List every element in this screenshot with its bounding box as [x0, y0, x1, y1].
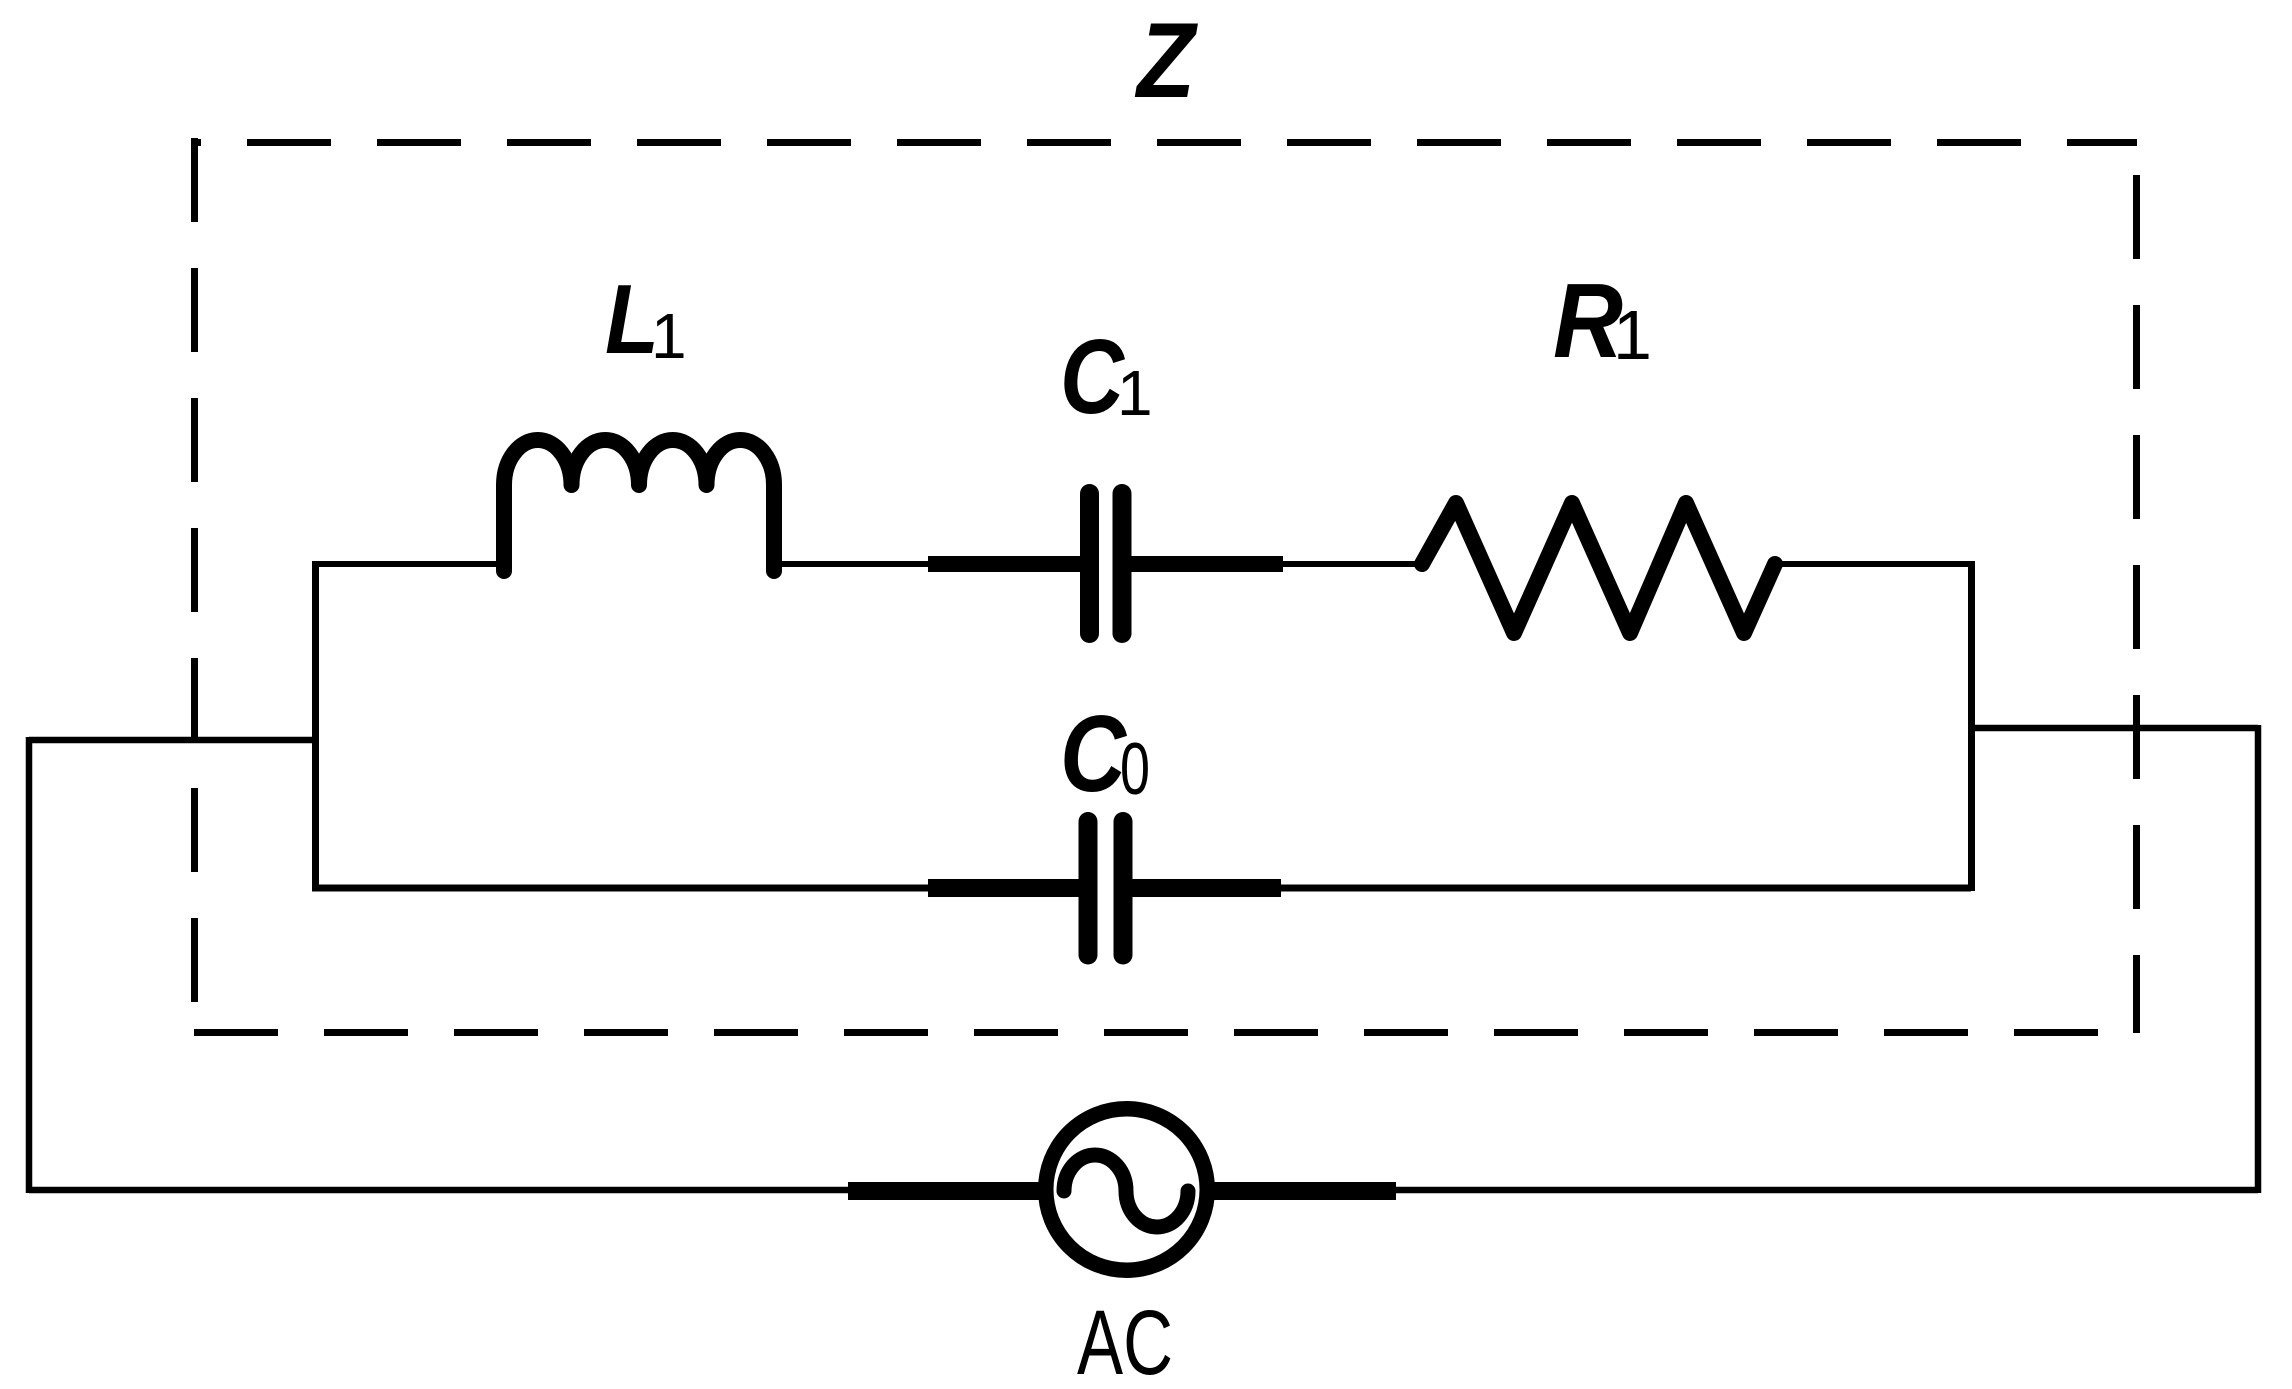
label L1	[605, 264, 687, 374]
svg-text:1: 1	[651, 300, 687, 372]
wire: bottom left segment	[29, 1187, 850, 1194]
wire: bottom right segment	[1396, 1187, 2258, 1194]
wire: inner right vertical (node 2)	[1968, 561, 1975, 891]
wire: R1 to right vertical	[1775, 561, 1974, 567]
wire: bottom branch left (node 1 to C0)	[312, 885, 930, 892]
capacitor C1	[928, 494, 1283, 634]
wire: inner left vertical (node 1)	[312, 561, 319, 891]
label C1	[1060, 318, 1153, 436]
wire: L1 to C1	[774, 561, 930, 567]
svg-text:1: 1	[1117, 357, 1153, 429]
wire: left external lead (node 1 to outer loop)	[29, 737, 315, 744]
resistor R1	[1422, 503, 1775, 633]
wire: left outer vertical	[26, 737, 33, 1193]
label C0	[1060, 693, 1150, 815]
label R1	[1553, 262, 1652, 380]
dashed box: impedance Z boundary	[194, 138, 2137, 1033]
inductor L1	[504, 440, 774, 571]
AC source V1	[848, 1109, 1396, 1271]
wire: right outer vertical	[2255, 725, 2262, 1193]
svg-text:C: C	[1060, 693, 1127, 815]
svg-text:0: 0	[1120, 729, 1150, 810]
svg-text:C: C	[1060, 318, 1125, 436]
capacitor C0	[928, 822, 1281, 956]
svg-text:AC: AC	[1077, 1292, 1173, 1389]
svg-text:1: 1	[1613, 296, 1652, 374]
wire: top branch left (node 1 to L1)	[312, 561, 506, 567]
wire: bottom branch right (C0 to node 2)	[1281, 885, 1971, 892]
svg-text:Z: Z	[1134, 0, 1198, 120]
wire: C1 to R1	[1283, 561, 1425, 567]
wire: right external lead (node 2 to outer loop)	[1968, 725, 2258, 732]
